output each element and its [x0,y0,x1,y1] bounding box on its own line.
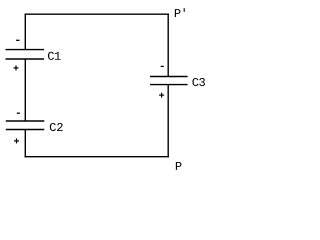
wire: left vertical middle segment (C1 bottom plate to C2 top plate) [24,59,26,121]
capacitor C1 plates [6,49,45,51]
C3 positive terminal sign [159,94,164,96]
wire: right vertical upper segment (P' corner down to C3 top plate) [167,14,169,77]
C2 positive terminal sign [14,140,19,142]
C1 positive terminal sign [14,67,19,69]
node P label [176,162,182,170]
C3 negative terminal sign [161,65,164,67]
capacitor C3 plates [150,76,188,78]
node P' label [175,8,185,17]
label C3 [192,78,204,86]
C2 negative terminal sign [17,112,20,114]
label C2 [50,123,63,131]
wire: bottom horizontal (node P corner to left branch) [25,156,169,158]
C1 negative terminal sign [16,39,19,41]
label C1 [48,52,61,60]
wire: right vertical lower segment (C3 bottom plate down to node P corner) [167,85,169,158]
wire: top horizontal (from left branch to node P' corner) [25,13,169,15]
wire: left vertical lower segment (C2 bottom plate to bottom wire) [24,130,26,158]
wire: left vertical upper segment (top wire down to C1 top plate) [24,14,26,50]
capacitor C2 plates [6,120,45,122]
